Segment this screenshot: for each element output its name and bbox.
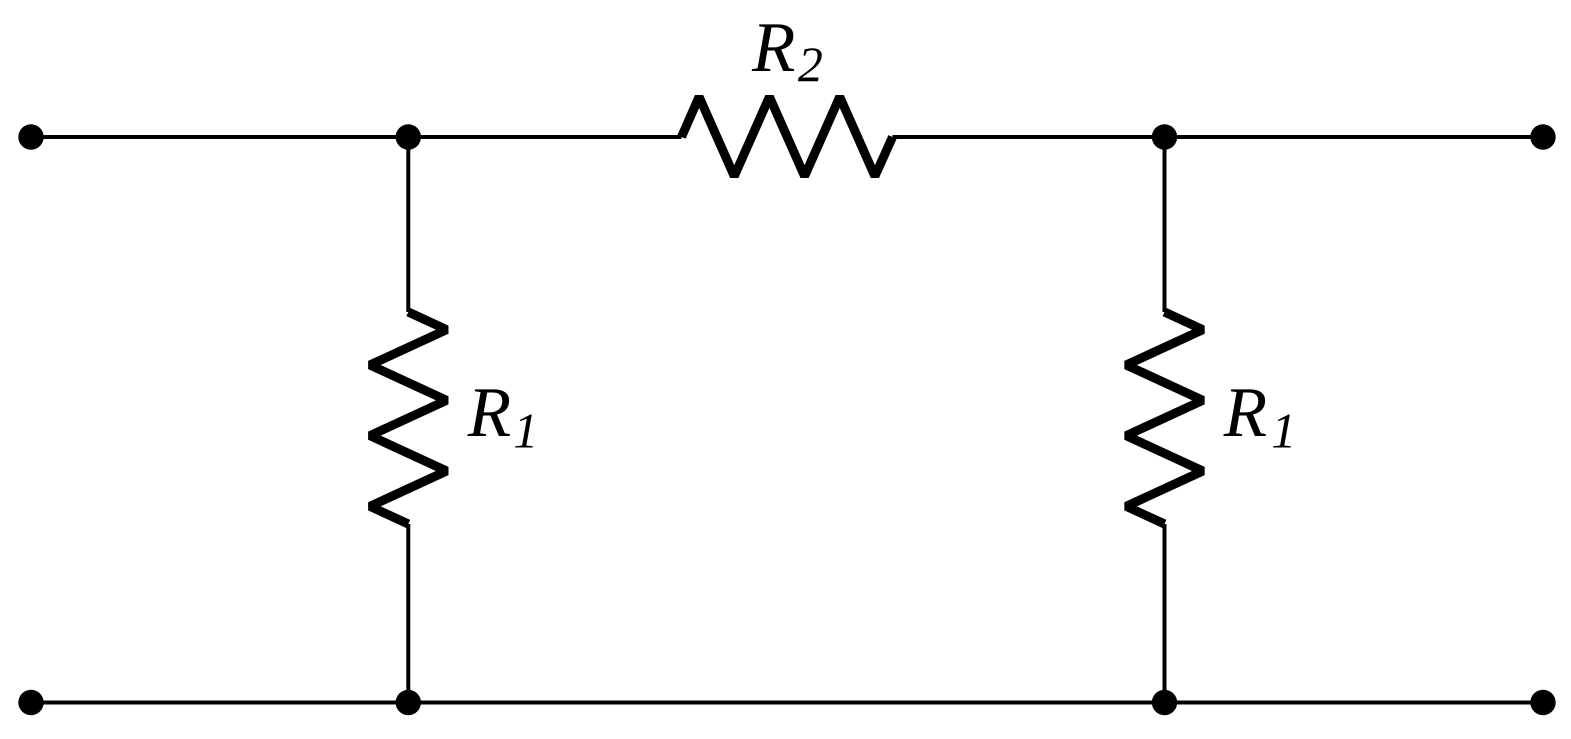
svg-text:1: 1 xyxy=(1271,403,1296,459)
wire top-right horizontal xyxy=(893,135,1544,139)
wire right vertical upper xyxy=(1163,137,1167,312)
node junction bottom-left xyxy=(396,690,421,715)
wire left vertical upper xyxy=(406,137,410,312)
wire top-left horizontal xyxy=(31,135,682,139)
wire bottom horizontal xyxy=(31,701,1543,705)
resistor R1 (left) xyxy=(370,312,447,524)
wire left vertical lower xyxy=(406,524,410,703)
resistor R1 (right) xyxy=(1126,312,1203,524)
node terminal top-right xyxy=(1530,124,1555,149)
svg-text:R: R xyxy=(751,9,795,87)
node junction top-left xyxy=(396,124,421,149)
svg-text:2: 2 xyxy=(798,36,823,92)
resistor R2 xyxy=(682,97,893,176)
node junction bottom-right xyxy=(1152,690,1177,715)
node terminal bottom-right xyxy=(1530,690,1555,715)
svg-text:1: 1 xyxy=(513,403,538,459)
node junction top-right xyxy=(1152,124,1177,149)
svg-text:R: R xyxy=(1223,374,1267,452)
node terminal bottom-left xyxy=(18,690,43,715)
svg-text:R: R xyxy=(467,374,511,452)
wire right vertical lower xyxy=(1163,524,1167,703)
node terminal top-left xyxy=(18,124,43,149)
